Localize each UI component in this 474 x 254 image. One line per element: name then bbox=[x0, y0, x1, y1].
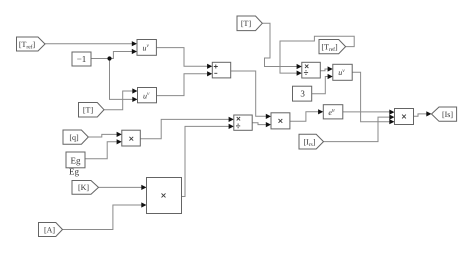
wire -1 branch down to uv2 exponent input bbox=[110, 59, 133, 100]
svg-text:[T]: [T] bbox=[241, 19, 252, 28]
wire divide2 out to product2 input2 bbox=[252, 123, 266, 125]
arrowhead product-big input2 bbox=[141, 202, 146, 207]
power block uv1 bbox=[137, 40, 156, 56]
arrowhead divide1 input1 bbox=[297, 64, 302, 69]
wire T2 to divide1 input1 bbox=[262, 23, 297, 66]
svg-text:[q]: [q] bbox=[69, 133, 79, 142]
wire exp out to product-final input1 bbox=[343, 111, 390, 113]
symbol product-final times bbox=[402, 115, 406, 119]
arrowhead uv2 input2 bbox=[132, 97, 137, 102]
product block qEg bbox=[122, 130, 141, 146]
arrowhead product-big input1 bbox=[141, 185, 146, 190]
from tag T1 bbox=[79, 103, 105, 118]
symbol sum minus bbox=[214, 72, 217, 74]
power block uv2 bbox=[138, 88, 157, 103]
wire uv1 out to sum plus input bbox=[156, 48, 207, 67]
symbol sum plus bbox=[214, 65, 218, 69]
svg-text:[A]: [A] bbox=[44, 225, 55, 234]
symbol product2 times bbox=[279, 119, 283, 123]
arrowhead uv3 input2 bbox=[328, 74, 333, 79]
divide block 2 bbox=[234, 115, 252, 130]
product block final bbox=[395, 109, 414, 125]
wire const3 to uv3 exponent input bbox=[312, 77, 328, 94]
symbol divide1 div dots bbox=[305, 70, 306, 71]
wire divide1 out to uv3 input1 bbox=[320, 69, 328, 71]
arrowhead uv1 input2 bbox=[132, 49, 137, 54]
from tag A bbox=[39, 223, 63, 237]
product block 2 bbox=[271, 113, 290, 129]
arrowhead uv2 input1 bbox=[132, 88, 137, 93]
arrowhead product-qEg input1 bbox=[117, 132, 122, 137]
arrowhead product2 input1 bbox=[266, 114, 271, 119]
symbol divide2 times bbox=[237, 117, 240, 120]
exp block bbox=[323, 105, 343, 119]
from tag Tref2 bbox=[319, 40, 346, 54]
wire Eg to product-qEg input2 bbox=[85, 142, 117, 159]
wire K to product-big input1 bbox=[99, 186, 142, 188]
arrowhead divide1 input2 bbox=[297, 71, 302, 76]
from tag K bbox=[72, 181, 99, 195]
constant block 3 bbox=[293, 86, 312, 101]
from tag q bbox=[63, 130, 88, 144]
arrowhead product-qEg input2 bbox=[117, 139, 122, 144]
from tag T2 bbox=[237, 16, 262, 31]
from tag Tref1 bbox=[17, 37, 46, 51]
wire A to product-big input2 bbox=[63, 205, 142, 230]
divide block 1 bbox=[302, 62, 321, 78]
arrowhead goto Is input bbox=[426, 111, 431, 116]
arrowhead product2 input2 bbox=[266, 122, 271, 127]
arrowhead product-final input3 bbox=[389, 119, 394, 124]
constant block Eg bbox=[66, 152, 85, 168]
svg-text:Eg: Eg bbox=[71, 155, 81, 165]
svg-text:Eg: Eg bbox=[69, 167, 79, 177]
symbol divide1 times bbox=[305, 65, 308, 68]
constant block -1 bbox=[72, 52, 91, 66]
goto tag Is bbox=[432, 107, 457, 121]
svg-text:[Is]: [Is] bbox=[442, 110, 453, 119]
arrowhead uv1 input1 bbox=[132, 41, 137, 46]
wire -1 out to uv1 exponent input bbox=[91, 52, 132, 59]
arrowhead divide2 input2 bbox=[229, 124, 234, 129]
wire T1 to uv2 input1 bbox=[104, 91, 133, 110]
arrowhead product-final input2 bbox=[389, 115, 394, 120]
symbol divide1 div bbox=[304, 72, 308, 74]
wire product2 out to exp input bbox=[290, 112, 318, 122]
power block uv3 bbox=[333, 64, 352, 80]
wire Tref1 to uv1 input1 bbox=[45, 43, 132, 45]
wire product-big out to divide2 input2 bbox=[182, 126, 229, 196]
wire Tref2 loop to divide1 input2 bbox=[280, 36, 354, 73]
junction dot on -1 output wire bbox=[107, 56, 111, 60]
arrowhead exp input bbox=[318, 109, 323, 114]
svg-text:[T]: [T] bbox=[83, 105, 94, 114]
symbol product-qEg times bbox=[129, 137, 133, 141]
wire Irs to product-final input2 bbox=[324, 117, 390, 142]
symbol divide2 div bbox=[236, 125, 240, 127]
arrowhead product-final input1 bbox=[389, 110, 394, 115]
svg-text:3: 3 bbox=[300, 88, 305, 98]
wire uv2 out to sum minus input bbox=[157, 74, 208, 96]
arrowhead sum input1 bbox=[207, 64, 212, 69]
wire sum out to product2 input1 bbox=[231, 71, 266, 116]
wire uv3 out to product-final input3 bbox=[352, 72, 389, 121]
arrowhead sum input2 bbox=[207, 71, 212, 76]
symbol product-big times bbox=[162, 193, 166, 197]
wire product-final out to goto Is bbox=[414, 114, 427, 116]
arrowhead uv3 input1 bbox=[328, 66, 333, 71]
svg-text:[K]: [K] bbox=[78, 183, 89, 192]
arrowhead divide2 input1 bbox=[229, 117, 234, 122]
sum block bbox=[212, 62, 230, 78]
svg-text:−1: −1 bbox=[77, 54, 87, 64]
wire product-qEg out to divide2 input1 bbox=[140, 119, 229, 138]
symbol divide2 div dots bbox=[238, 124, 239, 125]
wire q to product-qEg input1 bbox=[88, 134, 117, 137]
product block big KA bbox=[147, 178, 182, 214]
from tag Irs bbox=[299, 134, 324, 149]
